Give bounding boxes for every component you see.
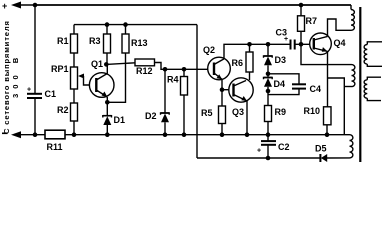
resistor R6 xyxy=(232,44,254,72)
node junction C2 bottom xyxy=(266,156,271,161)
node junction D3 top xyxy=(266,42,271,47)
svg-text:R9: R9 xyxy=(275,107,287,117)
zener D2 xyxy=(145,69,169,134)
svg-text:+: + xyxy=(2,1,7,11)
svg-text:R3: R3 xyxy=(89,36,101,46)
svg-text:R2: R2 xyxy=(57,105,69,115)
node junction Q2 emitter xyxy=(220,87,225,92)
svg-text:RP1: RP1 xyxy=(51,64,69,74)
svg-text:+: + xyxy=(257,148,261,155)
resistor R3 xyxy=(89,25,111,65)
node junction R7 bottom / C3 xyxy=(299,42,304,47)
svg-text:C4: C4 xyxy=(310,84,322,94)
resistor R12 xyxy=(135,59,214,76)
resistor R5 xyxy=(201,90,226,135)
node junction R6 top xyxy=(247,42,252,47)
capacitor C4 xyxy=(268,74,321,95)
node junction R2 bottom xyxy=(72,132,77,137)
transformer winding W4 secondary xyxy=(364,77,381,100)
svg-text:Q2: Q2 xyxy=(203,45,215,55)
svg-text:R6: R6 xyxy=(232,58,244,68)
svg-text:300 В: 300 В xyxy=(11,53,20,98)
node junction C1 bottom xyxy=(33,132,38,137)
wire ground rail xyxy=(65,134,350,136)
wire bottom aux rail xyxy=(197,157,321,159)
svg-text:D2: D2 xyxy=(145,111,157,121)
node minus terminal label xyxy=(2,132,8,134)
node junction R7 top xyxy=(299,3,304,8)
wire top arrow to plus output xyxy=(11,2,21,9)
transformer core xyxy=(359,7,361,162)
node junction top-left xyxy=(33,3,38,8)
potentiometer RP1 xyxy=(51,64,95,103)
wire aux supply vertical xyxy=(196,25,198,158)
wire Q2 emitter xyxy=(221,79,223,89)
wire R7 node to aux winding xyxy=(301,44,352,64)
node junction D3-D4 xyxy=(266,72,271,77)
zener D4 xyxy=(264,74,286,91)
svg-text:Q1: Q1 xyxy=(91,59,103,69)
node A collector junction xyxy=(104,62,109,67)
svg-text:R11: R11 xyxy=(47,142,63,152)
wire top positive rail xyxy=(35,4,351,6)
resistor R7 xyxy=(298,5,318,44)
node junction D1 bottom xyxy=(105,132,110,137)
svg-text:C1: C1 xyxy=(45,89,57,99)
svg-text:D1: D1 xyxy=(114,115,126,125)
resistor R4 xyxy=(167,69,188,134)
node junction D4 bottom xyxy=(266,89,271,94)
wire left bus upper xyxy=(34,5,36,93)
transistor Q4 xyxy=(310,33,346,55)
node junction R3 top xyxy=(105,22,110,27)
svg-text:R13: R13 xyxy=(131,38,148,48)
node junction R5 bottom xyxy=(220,132,225,137)
transistor Q1 xyxy=(89,59,114,97)
transformer winding W2 aux xyxy=(352,65,355,87)
svg-text:R10: R10 xyxy=(304,106,321,116)
svg-text:Q3: Q3 xyxy=(232,107,244,117)
resistor R9 xyxy=(265,91,287,135)
resistor R10 xyxy=(304,106,332,135)
transformer winding W5 supply xyxy=(327,135,353,158)
node junction R13 top xyxy=(123,22,128,27)
resistor R1 xyxy=(57,25,78,67)
label vertical source text xyxy=(2,20,20,134)
wire Q4 collector staircase to W1 xyxy=(328,19,352,36)
svg-text:R12: R12 xyxy=(136,66,153,76)
node junction D2 top xyxy=(163,67,168,72)
wire aux winding bottom lead xyxy=(344,86,351,88)
transformer winding W1 primary xyxy=(351,5,354,30)
svg-text:R1: R1 xyxy=(57,36,69,46)
svg-text:D4: D4 xyxy=(274,79,286,89)
wire Q1 emitter xyxy=(106,97,108,102)
transistor Q3 xyxy=(229,78,253,117)
zener D1 xyxy=(103,102,125,134)
wire emitter to Q3 base xyxy=(222,89,234,91)
wire Q3 collector xyxy=(249,72,251,80)
svg-text:R4: R4 xyxy=(167,75,179,85)
wire Q4 emitter down xyxy=(327,51,329,106)
wire Q1 collector xyxy=(106,64,108,73)
wire second rail xyxy=(74,24,197,26)
svg-text:R7: R7 xyxy=(306,16,318,26)
svg-text:R5: R5 xyxy=(201,108,213,118)
svg-text:C2: C2 xyxy=(278,142,290,152)
capacitor C3 xyxy=(276,28,295,50)
node junction R10 bottom xyxy=(325,132,330,137)
zener D3 xyxy=(264,44,287,74)
wire left bus lower xyxy=(34,99,36,135)
svg-text:С сетевого выпрямителя: С сетевого выпрямителя xyxy=(2,20,11,134)
svg-text:D5: D5 xyxy=(315,144,327,154)
svg-text:+: + xyxy=(27,87,31,94)
resistor R11 xyxy=(45,130,65,152)
capacitor C2 xyxy=(257,135,290,158)
wire bottom arrow to minus output xyxy=(11,131,21,138)
node junction R4 top xyxy=(182,67,187,72)
node junction R4 bottom xyxy=(182,132,187,137)
node junction R9 bottom xyxy=(266,132,271,137)
capacitor C1 xyxy=(27,87,56,100)
wire node A to R12 xyxy=(106,63,135,65)
svg-text:D3: D3 xyxy=(275,55,287,65)
transistor Q2 xyxy=(203,45,230,80)
node junction Q3 emitter bottom xyxy=(245,132,250,137)
node Q1 emitter junction xyxy=(105,100,110,105)
svg-text:Q4: Q4 xyxy=(334,38,346,48)
wire Q3 emitter xyxy=(246,101,248,135)
transformer winding W3 secondary xyxy=(364,42,382,67)
node junction D2 bottom xyxy=(163,132,168,137)
wire C3 to Q4 base xyxy=(295,43,314,45)
wire Q2 collector to rail xyxy=(224,44,291,59)
svg-text:C3: C3 xyxy=(276,28,288,38)
diode D5 xyxy=(315,144,327,163)
resistor R2 xyxy=(57,103,78,135)
wire emitter to aux vertical xyxy=(328,78,345,135)
resistor R13 xyxy=(107,25,147,103)
